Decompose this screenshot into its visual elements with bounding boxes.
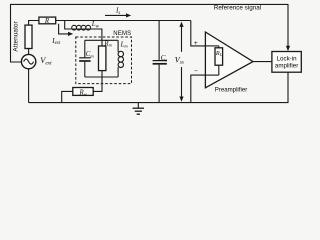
wire: bottom rail to preamp - input	[191, 75, 206, 103]
wire: + input inside triangle	[206, 45, 219, 47]
svg-text:Preamplifier: Preamplifier	[215, 87, 248, 94]
node: NEMS bottom	[85, 76, 118, 78]
wire: L_w into NEMS box	[91, 29, 102, 40]
wire: preamp output to lock-in	[253, 61, 272, 63]
svg-text:+: +	[194, 40, 198, 47]
lock-in amplifier box	[272, 52, 301, 73]
wire: source bottom to rail	[28, 69, 30, 103]
wire: reference signal line from source to lock-in	[11, 4, 289, 62]
current arrow I_ext	[59, 24, 70, 34]
ground	[137, 103, 139, 109]
op-amp preamplifier triangle	[205, 32, 253, 88]
svg-text:NEMS: NEMS	[113, 31, 131, 37]
resistor R_L	[218, 46, 220, 48]
wire: R_w to bottom rail	[62, 91, 73, 102]
svg-text:Reference signal: Reference signal	[214, 5, 261, 12]
svg-text:R: R	[44, 18, 50, 25]
arrowhead into lock-in top	[286, 46, 290, 51]
resistor R	[39, 17, 56, 24]
wire: attenuator to R	[29, 21, 39, 26]
wire: top rail	[56, 20, 191, 22]
wire: NEMS bottom exit to R_w	[93, 77, 102, 91]
node: NEMS top	[85, 39, 118, 41]
wire: branch down to L_w	[65, 21, 72, 30]
inductor L_w	[71, 28, 90, 30]
wire: source top to attenuator	[28, 49, 30, 55]
capacitor C_m	[84, 40, 86, 57]
inductor L_m	[117, 40, 119, 52]
resistor R_m	[101, 40, 103, 46]
svg-text:−: −	[194, 68, 198, 75]
wire: - input inside triangle	[206, 74, 219, 76]
resistor R_w	[73, 88, 93, 96]
NEMS dashed box	[76, 37, 132, 84]
svg-text:Attenuator: Attenuator	[13, 20, 20, 51]
voltage arrow V_ss	[179, 22, 183, 27]
svg-text:amplifier: amplifier	[275, 63, 298, 70]
wire: bottom rail	[29, 72, 288, 102]
current arrow I_s	[105, 14, 128, 16]
attenuator resistor box	[25, 25, 32, 48]
svg-text:Lock-in: Lock-in	[277, 55, 298, 62]
source V_ext	[21, 54, 35, 68]
capacitor C_s	[158, 21, 160, 61]
wire: top rail to preamp + input	[191, 21, 206, 46]
